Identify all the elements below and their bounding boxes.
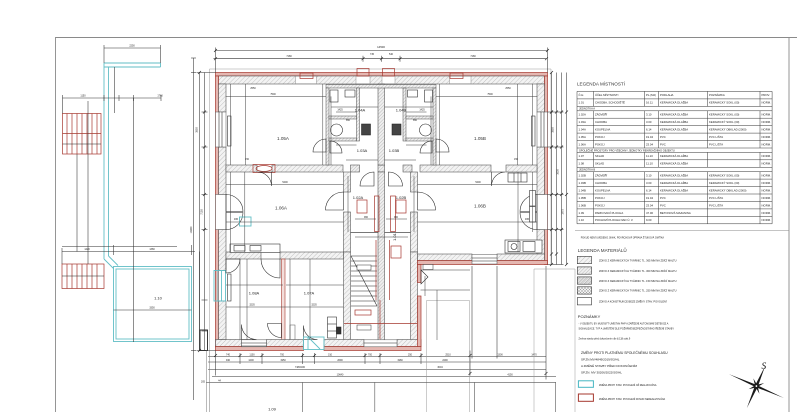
svg-text:1.03A: 1.03A	[357, 148, 368, 153]
svg-text:CHODBA: CHODBA	[595, 120, 607, 124]
svg-text:1380: 1380	[149, 248, 155, 251]
svg-text:1.04B: 1.04B	[579, 188, 586, 192]
svg-text:540: 540	[389, 53, 394, 56]
red new partitions middle column	[344, 196, 417, 339]
svg-text:5400: 5400	[282, 181, 288, 184]
svg-text:205: 205	[201, 380, 206, 383]
svg-text:1.06A: 1.06A	[275, 206, 288, 211]
svg-text:POKUD NENÍ UVEDENO JINAK, POVR: POKUD NENÍ UVEDENO JINAK, POVRCHOVÁ ÚPRA…	[581, 237, 665, 240]
svg-text:S: S	[762, 362, 767, 372]
exterior step bottom-left	[230, 345, 282, 351]
svg-text:1300: 1300	[497, 353, 503, 356]
svg-text:150: 150	[514, 158, 519, 161]
svg-text:1.05B: 1.05B	[474, 136, 486, 141]
svg-text:KERAMICKÝ SOKL (00): KERAMICKÝ SOKL (00)	[709, 113, 739, 117]
svg-text:KERAMICKÝ OBKLAD (2000): KERAMICKÝ OBKLAD (2000)	[709, 128, 747, 132]
bathroom fixtures	[330, 90, 433, 136]
right wing inner corner vertical wall	[418, 265, 429, 347]
cyan change box	[578, 381, 593, 388]
svg-text:NORM.: NORM.	[762, 181, 772, 185]
parking boundary lines	[427, 269, 576, 412]
svg-text:1970: 1970	[562, 209, 565, 215]
left exterior wall	[216, 76, 227, 347]
svg-text:16.11: 16.11	[646, 101, 653, 105]
svg-text:1.09: 1.09	[579, 211, 585, 215]
svg-text:1.06B: 1.06B	[474, 204, 486, 209]
svg-text:1.02A: 1.02A	[579, 113, 586, 117]
svg-text:2290: 2290	[442, 359, 448, 362]
svg-text:KERAMICKÝ OBKLAD (2000): KERAMICKÝ OBKLAD (2000)	[709, 188, 747, 192]
svg-text:11.10: 11.10	[646, 154, 653, 158]
wall middle column right	[411, 172, 418, 340]
svg-text:PVC: PVC	[660, 142, 666, 146]
svg-text:1.04A: 1.04A	[579, 128, 586, 132]
left dimension lines	[197, 73, 216, 351]
svg-text:19.04: 19.04	[646, 196, 653, 200]
svg-text:23.04: 23.04	[646, 142, 653, 146]
svg-text:NORM.: NORM.	[762, 218, 772, 222]
legend mistnosti table	[577, 91, 772, 223]
svg-text:3550: 3550	[552, 127, 555, 133]
bathroom block 1.04A/1.04B walls	[326, 85, 436, 166]
svg-text:23.04: 23.04	[646, 203, 653, 207]
svg-text:3.00: 3.00	[646, 120, 652, 124]
svg-text:1.07: 1.07	[579, 154, 585, 158]
svg-text:1425: 1425	[419, 109, 425, 112]
svg-text:A ZMĚNĚ STAVBY PŘED DOKONČENÍM: A ZMĚNĚ STAVBY PŘED DOKONČENÍM	[581, 363, 638, 368]
svg-text:3000: 3000	[557, 169, 560, 175]
door arcs at bottom wall	[242, 325, 318, 340]
exterior stairs upper (red)	[63, 114, 102, 155]
svg-text:1.05B: 1.05B	[579, 196, 586, 200]
svg-text:47.00: 47.00	[646, 211, 653, 215]
svg-text:150: 150	[245, 158, 250, 161]
svg-text:1.08: 1.08	[579, 162, 585, 166]
svg-text:NORM.: NORM.	[762, 101, 772, 105]
svg-text:3.10: 3.10	[646, 113, 652, 117]
svg-text:KERAMICKÝ SOKL (00): KERAMICKÝ SOKL (00)	[709, 174, 739, 178]
svg-text:PVC LIŠTA: PVC LIŠTA	[709, 134, 723, 139]
svg-text:PL.(M2): PL.(M2)	[646, 93, 656, 97]
svg-text:ZÁDVEŘÍ: ZÁDVEŘÍ	[595, 112, 607, 117]
window gaps under center vents	[356, 76, 395, 83]
svg-text:KERAMICKÁ DLAŽBA: KERAMICKÁ DLAŽBA	[660, 153, 688, 158]
svg-text:KERAMICKÁ DLAŽBA: KERAMICKÁ DLAŽBA	[660, 173, 688, 178]
doors 1.03 to 1.02	[360, 172, 403, 186]
svg-text:POKOJ: POKOJ	[595, 203, 605, 207]
svg-text:1470: 1470	[531, 353, 537, 356]
door arc 1.07A entry	[261, 259, 280, 278]
kitchen counter 1.06A	[230, 244, 280, 253]
svg-text:PVC LIŠTA: PVC LIŠTA	[709, 202, 723, 207]
svg-text:1760: 1760	[157, 95, 163, 98]
svg-text:KERAMICKÁ DLAŽBA: KERAMICKÁ DLAŽBA	[660, 187, 688, 192]
svg-text:1.01: 1.01	[392, 232, 397, 241]
svg-text:1950: 1950	[280, 359, 286, 362]
terrace door 1.06B right wall	[520, 195, 548, 230]
svg-text:3.10: 3.10	[646, 174, 652, 178]
svg-text:1.03B: 1.03B	[389, 148, 400, 153]
svg-text:POZNÁMKA: POZNÁMKA	[709, 93, 725, 97]
radiators	[228, 116, 536, 301]
svg-text:850: 850	[413, 119, 418, 122]
svg-text:495: 495	[234, 218, 239, 221]
door arc 1.06B top	[492, 172, 506, 186]
staircase 1.01 treads	[351, 256, 377, 306]
svg-text:KERAMICKÝ SOKL (00): KERAMICKÝ SOKL (00)	[709, 181, 739, 185]
fireplace on wall (red)	[253, 165, 275, 173]
svg-text:1980: 1980	[397, 359, 403, 362]
svg-text:KERAMICKÁ DLAŽBA: KERAMICKÁ DLAŽBA	[660, 100, 688, 105]
door arc 1.06B to 1.02B	[418, 192, 436, 210]
svg-text:POKOJ: POKOJ	[595, 196, 605, 200]
door jamb 1.07A	[290, 325, 295, 340]
svg-text:2550: 2550	[250, 87, 256, 90]
svg-text:SP.ZN. MV 30206/2022/SÚ/HL: SP.ZN. MV 30206/2022/SÚ/HL	[581, 370, 622, 375]
svg-text:ZDIVO Z KERAMICKÝCH TVÁRNIC TL: ZDIVO Z KERAMICKÝCH TVÁRNIC TL. 150 MM N…	[599, 279, 677, 283]
svg-text:PROV.: PROV.	[762, 93, 771, 97]
right dimension lines	[548, 73, 567, 265]
window W1 1.05A left wall	[216, 112, 227, 147]
svg-text:1.09: 1.09	[268, 407, 277, 412]
cyan window 1.08A left wall	[214, 271, 226, 302]
svg-text:PODLAHA: PODLAHA	[660, 93, 674, 97]
svg-text:ZMĚNY PROTI PLATNÉMU SPOLEČNÉM: ZMĚNY PROTI PLATNÉMU SPOLEČNÉMU SOUHLASU	[581, 350, 668, 355]
svg-text:1.04B: 1.04B	[396, 108, 407, 113]
svg-text:7500: 7500	[270, 93, 276, 96]
svg-text:NORM.: NORM.	[762, 142, 772, 146]
interior dimension lines	[226, 84, 537, 340]
line under table	[575, 229, 789, 231]
svg-text:PARKOVACÍ PLOCHA: PARKOVACÍ PLOCHA	[595, 211, 623, 215]
party wall center	[378, 84, 385, 340]
parking area 1.09 lines	[206, 351, 556, 412]
svg-text:3.00: 3.00	[646, 181, 652, 185]
svg-text:POZNÁMKY: POZNÁMKY	[578, 314, 601, 319]
svg-text:NORM.: NORM.	[762, 196, 772, 200]
svg-text:SP.ZN.MV/4849/2019/SÚ/HL: SP.ZN.MV/4849/2019/SÚ/HL	[581, 357, 620, 362]
small black boxes middle	[357, 265, 433, 331]
svg-text:KERAMICKÝ SOKL (00): KERAMICKÝ SOKL (00)	[709, 120, 739, 124]
svg-text:1200: 1200	[248, 359, 254, 362]
svg-text:JEDNOTKA B: JEDNOTKA B	[579, 168, 595, 172]
svg-text:KERAMICKÁ DLAŽBA: KERAMICKÁ DLAŽBA	[660, 112, 688, 117]
svg-text:940: 940	[226, 359, 231, 362]
left structure dimension lines	[62, 45, 200, 400]
svg-text:NORM.: NORM.	[762, 211, 772, 215]
svg-text:1.07A: 1.07A	[304, 291, 315, 296]
door leaves right wall	[530, 191, 536, 223]
svg-text:KERAMICKÁ DLAŽBA: KERAMICKÁ DLAŽBA	[660, 180, 688, 185]
svg-text:PVC: PVC	[660, 196, 666, 200]
svg-text:NORM.: NORM.	[762, 113, 772, 117]
svg-text:PVC: PVC	[660, 135, 666, 139]
svg-text:POKOJ: POKOJ	[595, 135, 605, 139]
svg-text:1.05A: 1.05A	[579, 135, 586, 139]
svg-text:KERAMICKÁ DLAŽBA: KERAMICKÁ DLAŽBA	[660, 161, 688, 166]
door arc 1.06A to 1.08A	[226, 259, 240, 273]
svg-text:1.02B: 1.02B	[396, 195, 407, 200]
svg-text:495: 495	[525, 218, 530, 221]
svg-text:1.10: 1.10	[579, 218, 585, 222]
svg-text:700: 700	[280, 353, 285, 356]
svg-text:2510: 2510	[445, 353, 451, 356]
svg-text:745: 745	[370, 53, 375, 56]
svg-text:9.00: 9.00	[646, 218, 652, 222]
svg-text:CHODBA, SCHODIŠTĚ: CHODBA, SCHODIŠTĚ	[595, 100, 625, 105]
svg-text:3004: 3004	[437, 366, 443, 369]
door arc 1.06A to 1.02A	[326, 192, 344, 210]
bottom dimension lines	[208, 266, 556, 380]
svg-text:ZÁDVEŘÍ: ZÁDVEŘÍ	[595, 173, 607, 178]
svg-text:ZMĚNA PROTI STAV. POVOLENÍ DOS: ZMĚNA PROTI STAV. POVOLENÍ DOSUD NEREALI…	[599, 398, 666, 401]
svg-text:SKLAD: SKLAD	[595, 154, 604, 158]
door arcs bathroom	[313, 139, 449, 153]
svg-text:NORM.: NORM.	[762, 162, 772, 166]
svg-text:1.06A: 1.06A	[579, 142, 586, 146]
svg-text:POCHOZÍ PLOCHA NAD Ú. V.: POCHOZÍ PLOCHA NAD Ú. V.	[595, 217, 634, 222]
top dimension lines	[214, 48, 548, 73]
svg-text:3235: 3235	[311, 304, 317, 307]
svg-text:KERAMICKÝ SOKL (00): KERAMICKÝ SOKL (00)	[709, 101, 739, 105]
svg-text:7480/180: 7480/180	[295, 366, 306, 369]
svg-text:11.10: 11.10	[646, 162, 653, 166]
svg-text:ZDIVO Z KERAMICKÝCH TVÁRNIC TL: ZDIVO Z KERAMICKÝCH TVÁRNIC TL. 300 MM N…	[599, 269, 677, 273]
svg-text:KERAMICKÁ DLAŽBA: KERAMICKÁ DLAŽBA	[660, 127, 688, 132]
svg-text:960: 960	[394, 216, 399, 219]
terrace 1.10 cyan outline	[114, 267, 192, 342]
svg-text:SIGNALIZACE. TYP A UMÍSTĚNÍ DL: SIGNALIZACE. TYP A UMÍSTĚNÍ DLE POŽÁRNĚ …	[579, 327, 675, 330]
svg-text:PVC LIŠTA: PVC LIŠTA	[709, 195, 723, 200]
svg-text:- V OBJEKTU BY MUSÍ BÝT UMÍSTě: - V OBJEKTU BY MUSÍ BÝT UMÍSTěN PHP A ZA…	[579, 322, 669, 325]
svg-text:LEGENDA MÍSTNOSTÍ: LEGENDA MÍSTNOSTÍ	[577, 80, 626, 86]
party wall stub at middle wall	[351, 165, 413, 172]
svg-text:1.03B: 1.03B	[579, 181, 586, 185]
svg-text:700: 700	[368, 353, 373, 356]
svg-text:NORM.: NORM.	[762, 188, 772, 192]
svg-text:PVC: PVC	[660, 203, 666, 207]
wall 1.06A right / middle column left	[344, 172, 351, 340]
svg-text:7180: 7180	[470, 55, 476, 58]
svg-text:4150: 4150	[507, 374, 513, 377]
svg-text:10640: 10640	[337, 374, 344, 377]
svg-text:5400: 5400	[475, 181, 481, 184]
svg-text:JEDNOTKA A: JEDNOTKA A	[579, 107, 595, 111]
svg-text:7500: 7500	[487, 93, 493, 96]
kitchen upper box 1.06B	[508, 173, 527, 182]
middle horizontal wall between 1.05 and 1.06 rows	[226, 165, 537, 172]
svg-text:2250: 2250	[129, 45, 135, 48]
svg-text:PVC LIŠTA: PVC LIŠTA	[709, 141, 723, 146]
black pillar left of building	[200, 330, 208, 351]
svg-text:POKOJ: POKOJ	[595, 142, 605, 146]
svg-text:19.04: 19.04	[646, 135, 653, 139]
door arc partition 1.08A/1.07A	[268, 324, 282, 338]
svg-text:6.14: 6.14	[646, 128, 652, 132]
svg-text:1.10: 1.10	[154, 296, 163, 301]
window 1.05B right wall	[537, 112, 548, 147]
svg-text:850: 850	[346, 119, 351, 122]
svg-text:CHODBA: CHODBA	[595, 181, 607, 185]
svg-text:ZMĚNA PROTI STAV. POVOLENÍ JIŽ: ZMĚNA PROTI STAV. POVOLENÍ JIŽ REALIZOVÁ…	[599, 384, 657, 387]
svg-text:6.14: 6.14	[646, 188, 652, 192]
extra interior dimension lines	[226, 84, 533, 340]
svg-text:1425: 1425	[337, 109, 343, 112]
svg-text:7180: 7180	[286, 55, 292, 58]
svg-text:3350: 3350	[149, 307, 155, 310]
svg-text:1150: 1150	[80, 95, 86, 98]
tiny dim texts scattered	[234, 87, 530, 307]
svg-text:2690: 2690	[337, 359, 343, 362]
kitchen counter 1.06B	[505, 240, 542, 253]
wall between 1.06A and 1.08A/1.07A	[226, 252, 344, 259]
bottom-right wing wall	[418, 254, 548, 265]
svg-text:1.03A: 1.03A	[579, 120, 586, 124]
svg-text:3550: 3550	[196, 127, 199, 133]
svg-text:Č.H.: Č.H.	[579, 92, 585, 97]
svg-text:10280: 10280	[190, 226, 193, 233]
svg-text:NORM.: NORM.	[762, 174, 772, 178]
left access walkway cyan band	[104, 63, 161, 269]
svg-text:SKLAD: SKLAD	[595, 162, 604, 166]
svg-text:NORM.: NORM.	[762, 135, 772, 139]
svg-text:NORM.: NORM.	[762, 128, 772, 132]
wardrobe 1.07A	[328, 317, 342, 338]
svg-text:3235: 3235	[249, 304, 255, 307]
cyan appliance 1.06A	[240, 217, 252, 226]
svg-text:1.06B: 1.06B	[579, 203, 586, 207]
dim tick marks	[198, 49, 553, 375]
svg-text:14500: 14500	[377, 45, 385, 49]
svg-text:ZDIVO Z KERAMICKÝCH TVÁRNIC TL: ZDIVO Z KERAMICKÝCH TVÁRNIC TL. 365 MM N…	[599, 258, 677, 262]
cyan door bottom wall	[304, 337, 325, 350]
compass rose	[719, 354, 792, 412]
window gaps in top wall	[296, 76, 472, 83]
terrace door 1.06A left wall	[216, 195, 244, 230]
partition 1.08A/1.07A (red, new)	[282, 259, 286, 345]
svg-text:960: 960	[364, 216, 369, 219]
svg-text:2550: 2550	[505, 87, 511, 90]
svg-text:1.02B: 1.02B	[579, 174, 586, 178]
partition line below 1.02 rooms	[351, 232, 411, 234]
vent boxes in top wall	[300, 69, 463, 79]
svg-text:1.01: 1.01	[579, 101, 585, 105]
exterior stairs lower (red)	[62, 264, 104, 289]
material swatches	[577, 256, 676, 305]
svg-text:LEGENDA MATERIÁLŮ: LEGENDA MATERIÁLŮ	[578, 247, 627, 253]
svg-text:KOUPELNA: KOUPELNA	[595, 188, 610, 192]
svg-text:1100: 1100	[249, 353, 255, 356]
svg-text:KOUPELNA: KOUPELNA	[595, 128, 610, 132]
svg-text:7150: 7150	[201, 209, 204, 215]
svg-text:740: 740	[226, 353, 231, 356]
svg-text:1.05A: 1.05A	[277, 136, 290, 141]
svg-text:KERAMICKÁ DLAŽBA: KERAMICKÁ DLAŽBA	[660, 119, 688, 124]
building outer thin contour	[210, 69, 552, 351]
right exterior wall	[537, 76, 548, 265]
svg-text:1420: 1420	[84, 248, 90, 251]
svg-text:250: 250	[408, 353, 413, 356]
svg-text:NORM.: NORM.	[762, 154, 772, 158]
svg-text:1.08A: 1.08A	[249, 291, 260, 296]
svg-text:NORM.: NORM.	[762, 203, 772, 207]
red change box	[578, 394, 593, 401]
svg-text:ZDIVO Z KERAMICKÝCH TVÁRNIC TL: ZDIVO Z KERAMICKÝCH TVÁRNIC TL. 250 MM N…	[599, 289, 677, 293]
svg-text:Změna stavby před dokončením d: Změna stavby před dokončením dle § 118 o…	[579, 337, 631, 340]
svg-text:NORM.: NORM.	[762, 120, 772, 124]
svg-text:BETONOVÁ MAZANINA: BETONOVÁ MAZANINA	[660, 211, 691, 215]
bottom wall left wing	[216, 340, 422, 351]
door arc 1.06A top	[258, 172, 272, 186]
svg-text:310: 310	[328, 353, 333, 356]
svg-text:1.02A: 1.02A	[353, 195, 364, 200]
top exterior wall (red band + hatch)	[216, 73, 548, 85]
svg-text:ÚČEL MÍSTNOSTI: ÚČEL MÍSTNOSTI	[595, 92, 619, 97]
